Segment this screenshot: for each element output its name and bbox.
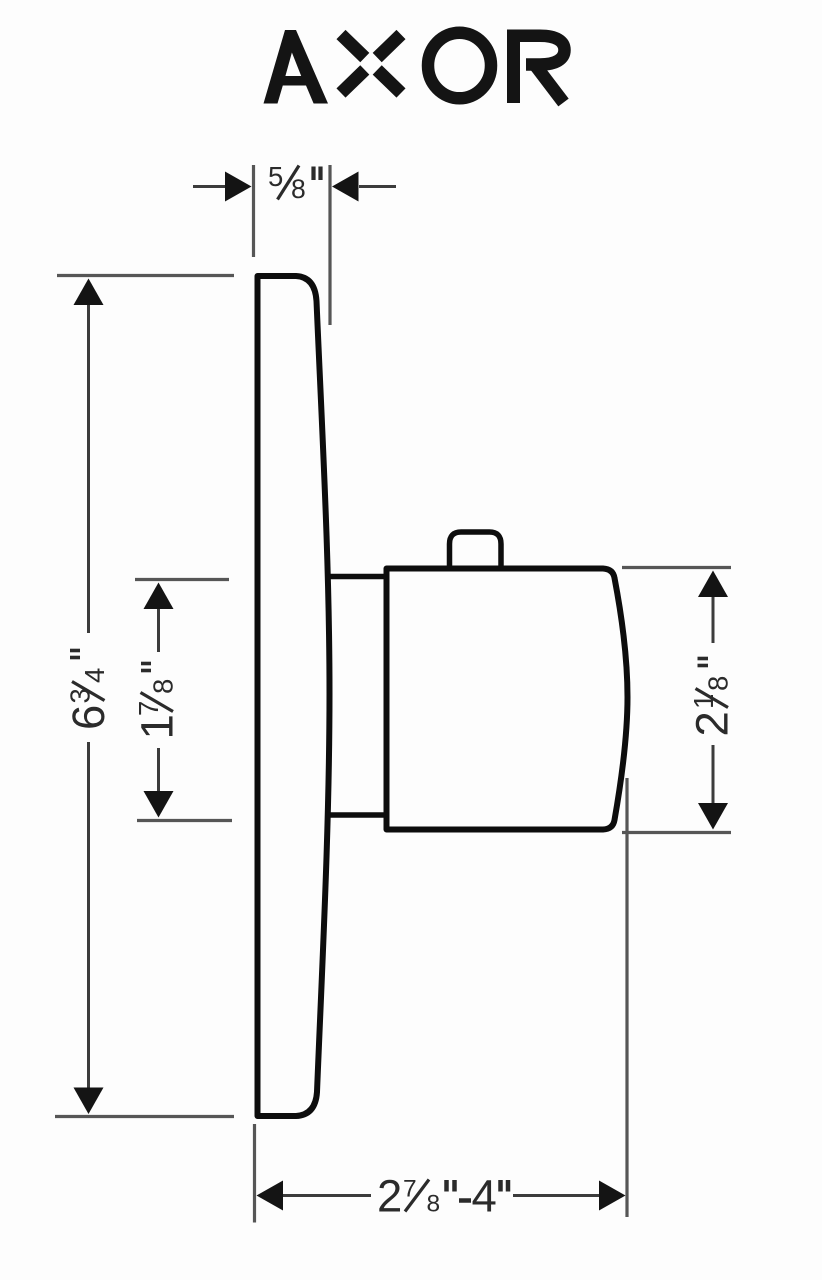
1 7/8 dim arrow up	[144, 583, 174, 610]
6 3/4 dim bottom extension line	[55, 1115, 234, 1118]
6 3/4 dim line upper segment	[87, 303, 90, 633]
6 3/4 dim arrow down	[74, 1088, 104, 1115]
AXOR logo letter O	[428, 33, 491, 99]
bottom dim left extension line	[253, 1124, 256, 1223]
2 1/8 dim line upper segment	[712, 595, 715, 643]
5/8 dim line left segment	[193, 185, 228, 188]
AXOR logo letter R	[513, 30, 565, 104]
handle top knob	[450, 532, 502, 568]
6 3/4 dim arrow up	[74, 279, 104, 306]
6 3/4 dim top extension line	[57, 274, 234, 277]
5/8 dim arrow pointing left	[332, 172, 359, 202]
valve stem sleeve bottom line	[329, 812, 388, 818]
bottom dim arrow pointing left	[257, 1181, 284, 1211]
1 7/8 dim bottom extension line	[137, 819, 232, 822]
2 1/8 dim top extension line	[622, 566, 731, 569]
valve stem sleeve top line	[329, 574, 388, 580]
AXOR logo letter X	[341, 35, 401, 94]
AXOR logo letter A	[264, 30, 329, 104]
2 1/8 dim text	[687, 659, 738, 737]
svg-text:6: 6	[63, 705, 114, 730]
5/8 dim arrow pointing right	[225, 172, 252, 202]
5/8 dim right extension line	[328, 165, 331, 325]
2 1/8 dim arrow up	[698, 571, 728, 598]
6 3/4 dim text	[63, 651, 114, 731]
2 1/8 dim bottom extension line	[622, 831, 731, 834]
escutcheon plate outline	[258, 276, 330, 1116]
control handle body	[387, 569, 628, 830]
bottom dim right extension line from handle	[625, 778, 628, 1217]
svg-text:3: 3	[65, 688, 96, 703]
bottom dim arrow pointing right	[599, 1181, 626, 1211]
svg-text:5: 5	[268, 161, 283, 192]
bottom dim text 2 7/8"-4"	[377, 1171, 508, 1222]
svg-text:4: 4	[79, 668, 110, 683]
5/8 dim left extension line	[252, 165, 255, 257]
svg-text:8: 8	[148, 679, 179, 694]
svg-text:4: 4	[472, 1171, 497, 1222]
svg-text:1: 1	[132, 714, 183, 739]
1 7/8 dim line lower segment	[157, 748, 160, 792]
bottom dim line right segment	[513, 1194, 601, 1197]
1 7/8 dim line upper segment	[157, 607, 160, 652]
svg-text:8: 8	[427, 1191, 441, 1218]
6 3/4 dim line lower segment	[87, 742, 90, 1089]
5/8 dim text	[268, 161, 321, 204]
5/8 dim line right segment	[359, 185, 396, 188]
1 7/8 dim text	[132, 664, 183, 740]
2 1/8 dim arrow down	[698, 803, 728, 830]
svg-text:8: 8	[291, 174, 306, 204]
svg-text:8: 8	[703, 676, 734, 691]
2 1/8 dim line lower segment	[712, 745, 715, 805]
bottom dim line left segment	[281, 1194, 371, 1197]
1 7/8 dim arrow down	[144, 791, 174, 818]
svg-text:2: 2	[377, 1171, 402, 1222]
1 7/8 dim top extension line	[135, 578, 229, 581]
svg-text:2: 2	[687, 711, 738, 736]
